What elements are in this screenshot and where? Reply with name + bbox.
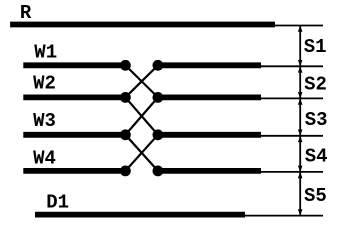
arrowhead S2 top (298, 66, 303, 72)
node W2 left dot (120, 92, 131, 103)
extension line W4 (261, 171, 323, 173)
arrowhead S5 bottom (298, 209, 303, 215)
node W4 left dot (120, 166, 131, 177)
wire W3 left segment (23, 132, 125, 138)
crossover wire W3 left to W2 right (125, 97, 157, 134)
wire W3 right segment (158, 132, 261, 138)
wire W1 right segment (158, 62, 261, 68)
arrowhead S1 bottom (298, 60, 303, 66)
arrowhead S3 top (298, 98, 303, 104)
arrowhead S4 top (298, 136, 303, 142)
svg-text:S3: S3 (305, 109, 328, 131)
svg-text:S2: S2 (304, 73, 327, 95)
arrowhead S5 top (298, 172, 303, 178)
svg-text:D1: D1 (46, 192, 69, 214)
crossover wire W4 left to W3 right (125, 135, 157, 171)
wire W1 left segment (23, 62, 125, 68)
extension line W1 (261, 65, 323, 67)
arrowhead S2 bottom (298, 92, 303, 98)
wire W2 right segment (158, 95, 261, 101)
svg-text:S5: S5 (304, 185, 327, 207)
wire W2 left segment (23, 95, 125, 101)
svg-text:W3: W3 (33, 110, 56, 132)
extension line R (275, 25, 323, 27)
wire W4 right segment (158, 168, 261, 174)
node W4 right dot (153, 166, 164, 177)
svg-text:S4: S4 (305, 146, 328, 168)
crossover wire W2 left to W1 right (125, 65, 157, 97)
crossover wire W1 left to W2 right (125, 65, 157, 97)
wire W4 left segment (23, 168, 125, 174)
trace D1 (35, 212, 245, 218)
arrowhead S4 bottom (298, 166, 303, 172)
node W3 left dot (120, 129, 131, 140)
arrowhead S1 top (298, 26, 303, 32)
svg-text:W4: W4 (33, 147, 56, 169)
node W2 right dot (153, 92, 164, 103)
crossover wire W3 left to W4 right (125, 135, 157, 171)
svg-text:S1: S1 (304, 36, 327, 58)
node W3 right dot (153, 129, 164, 140)
crossover wire W2 left to W3 right (125, 97, 157, 134)
trace R (10, 22, 275, 28)
node W1 right dot (153, 60, 164, 71)
svg-text:W1: W1 (34, 41, 57, 63)
extension line W3 (261, 135, 323, 137)
extension line D1 (245, 215, 323, 217)
arrowhead S3 bottom (298, 130, 303, 136)
dimension line vertical (299, 26, 301, 216)
extension line W2 (261, 97, 323, 99)
svg-text:R: R (20, 2, 32, 24)
svg-text:W2: W2 (33, 73, 56, 95)
node W1 left dot (120, 60, 131, 71)
